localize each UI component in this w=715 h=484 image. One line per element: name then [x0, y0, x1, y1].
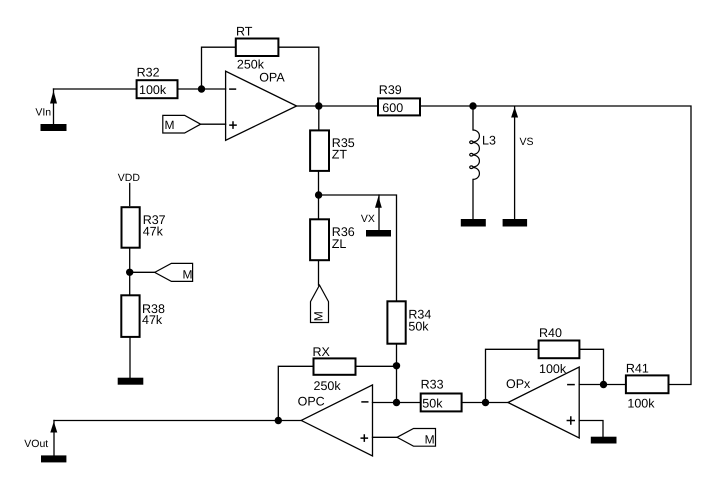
svg-text:VS: VS	[520, 136, 534, 148]
svg-text:OPx: OPx	[506, 377, 531, 391]
svg-text:VIn: VIn	[35, 107, 51, 119]
svg-text:100k: 100k	[539, 362, 567, 376]
svg-text:OPA: OPA	[259, 70, 285, 84]
svg-text:R33: R33	[421, 377, 444, 391]
svg-text:VDD: VDD	[118, 172, 141, 184]
svg-text:ZT: ZT	[332, 148, 348, 162]
svg-text:M: M	[183, 268, 193, 282]
svg-text:M: M	[312, 311, 326, 321]
svg-text:47k: 47k	[142, 313, 163, 327]
svg-text:M: M	[165, 118, 175, 132]
svg-text:100k: 100k	[139, 83, 167, 97]
svg-text:VOut: VOut	[24, 438, 48, 450]
svg-text:47k: 47k	[143, 225, 164, 239]
svg-text:RX: RX	[313, 345, 331, 359]
svg-text:ZL: ZL	[332, 237, 347, 251]
svg-text:VX: VX	[361, 213, 375, 225]
svg-text:M: M	[425, 433, 435, 447]
svg-text:OPC: OPC	[298, 394, 325, 408]
svg-text:50k: 50k	[422, 396, 443, 410]
svg-text:100k: 100k	[627, 397, 655, 411]
svg-text:RT: RT	[236, 25, 253, 39]
svg-text:L3: L3	[482, 134, 496, 148]
svg-text:600: 600	[382, 101, 403, 115]
svg-text:R39: R39	[379, 83, 402, 97]
svg-text:R32: R32	[137, 66, 160, 80]
svg-text:R41: R41	[626, 361, 649, 375]
svg-text:250k: 250k	[314, 379, 342, 393]
svg-text:R40: R40	[539, 326, 562, 340]
svg-text:250k: 250k	[237, 57, 265, 71]
svg-text:50k: 50k	[408, 319, 429, 333]
